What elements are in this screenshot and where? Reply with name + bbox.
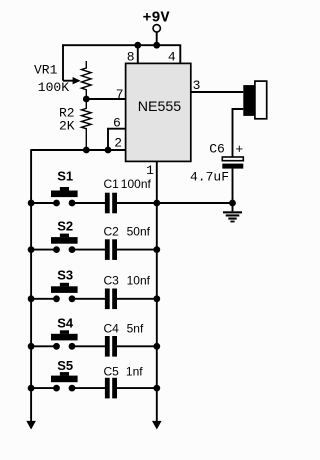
svg-text:C6: C6 [209,142,225,157]
svg-text:NE555: NE555 [138,99,181,115]
svg-text:+9V: +9V [143,9,170,26]
svg-text:50nf: 50nf [127,225,151,239]
svg-text:6: 6 [113,116,121,131]
svg-text:3: 3 [193,78,201,93]
svg-text:100nf: 100nf [121,177,152,191]
svg-text:1nf: 1nf [126,365,143,379]
svg-text:S4: S4 [57,316,74,331]
svg-text:+: + [235,142,243,157]
svg-text:8: 8 [127,49,135,64]
svg-text:1: 1 [146,163,154,178]
svg-text:4.7uF: 4.7uF [190,170,229,185]
svg-text:4: 4 [168,49,176,64]
svg-text:7: 7 [116,87,124,102]
svg-text:C4: C4 [104,322,120,336]
svg-text:S2: S2 [57,219,73,234]
svg-text:2: 2 [114,135,122,150]
svg-text:VR1: VR1 [34,63,58,78]
svg-text:C2: C2 [104,225,120,239]
svg-text:5nf: 5nf [127,322,144,336]
svg-text:C5: C5 [104,365,120,379]
svg-text:S1: S1 [57,168,73,183]
svg-text:2K: 2K [59,118,75,133]
svg-text:S3: S3 [57,268,73,283]
svg-text:C3: C3 [104,274,120,288]
svg-text:C1: C1 [104,177,120,191]
svg-text:S5: S5 [57,358,73,373]
svg-text:10nf: 10nf [127,274,151,288]
svg-text:100K: 100K [38,80,69,95]
